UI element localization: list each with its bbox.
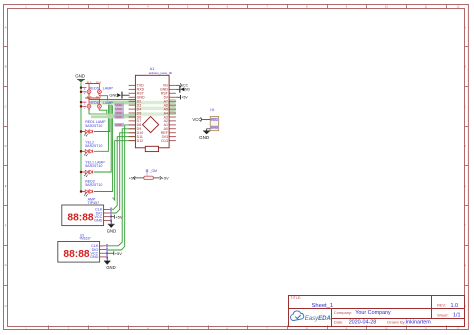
svg-text:GND: GND xyxy=(199,135,210,140)
svg-text:Inkinartem: Inkinartem xyxy=(406,320,432,326)
svg-text:GND: GND xyxy=(182,88,190,92)
svg-text:+5V: +5V xyxy=(182,96,189,100)
svg-text:GND: GND xyxy=(75,74,85,79)
svg-text:F: F xyxy=(5,224,7,228)
svg-text:Your Company: Your Company xyxy=(355,310,391,316)
svg-text:2020-04-28: 2020-04-28 xyxy=(349,320,377,326)
svg-text:5AR25T10: 5AR25T10 xyxy=(85,144,102,148)
svg-text:+5V: +5V xyxy=(115,214,123,219)
svg-text:D: D xyxy=(5,144,7,148)
svg-text:Drawn By:: Drawn By: xyxy=(387,319,405,324)
svg-text:_OM: _OM xyxy=(149,169,158,173)
svg-text:A: A xyxy=(5,26,7,30)
svg-text:GND: GND xyxy=(109,93,118,98)
svg-text:Date:: Date: xyxy=(334,319,344,324)
svg-text:M6M1: M6M1 xyxy=(115,103,123,107)
svg-text:1.0: 1.0 xyxy=(451,303,459,309)
svg-text:D13: D13 xyxy=(161,139,168,143)
svg-text:arduino_nano_3b: arduino_nano_3b xyxy=(149,71,173,75)
svg-text:H: H xyxy=(5,304,7,308)
svg-text:LAMP: LAMP xyxy=(103,101,114,105)
svg-text:VCC: VCC xyxy=(211,118,218,122)
svg-text:M8M1: M8M1 xyxy=(115,111,123,115)
svg-text:+5V: +5V xyxy=(129,176,136,180)
svg-text:Sheet:: Sheet: xyxy=(437,312,449,317)
svg-text:1/1: 1/1 xyxy=(453,313,461,319)
svg-text:GND: GND xyxy=(106,265,115,270)
svg-text:M2M1: M2M1 xyxy=(115,123,123,127)
svg-text:GND: GND xyxy=(211,126,219,130)
svg-text:M5M1: M5M1 xyxy=(115,107,123,111)
svg-text:Company:: Company: xyxy=(334,310,352,315)
svg-text:RED5: RED5 xyxy=(89,87,99,91)
svg-text:TITLE:: TITLE: xyxy=(291,296,302,300)
svg-text:M9M1: M9M1 xyxy=(115,115,123,119)
svg-text:D12: D12 xyxy=(137,139,144,143)
svg-text:LAMP: LAMP xyxy=(103,87,114,91)
svg-text:REV:: REV: xyxy=(437,303,446,308)
svg-text:H1: H1 xyxy=(210,108,214,112)
svg-text:RED6: RED6 xyxy=(89,101,99,105)
svg-text:+5V: +5V xyxy=(115,251,123,256)
svg-text:+5V: +5V xyxy=(162,176,169,180)
svg-text:EasyEDA: EasyEDA xyxy=(305,316,331,322)
svg-text:GND: GND xyxy=(107,228,116,233)
svg-text:E: E xyxy=(5,184,7,188)
svg-text:B: B xyxy=(5,65,7,69)
svg-text:TIP457: TIP457 xyxy=(88,201,100,205)
svg-text:5AR25T10: 5AR25T10 xyxy=(85,164,102,168)
svg-text:C: C xyxy=(5,104,7,108)
svg-text:5AR25T10: 5AR25T10 xyxy=(85,124,102,128)
svg-text:0: 0 xyxy=(146,169,148,173)
svg-text:5AR25T10: 5AR25T10 xyxy=(85,183,102,187)
svg-text:TM1637: TM1637 xyxy=(79,237,91,241)
svg-text:G: G xyxy=(5,263,7,267)
svg-text:VCC: VCC xyxy=(192,117,201,122)
svg-text:Sheet_1: Sheet_1 xyxy=(312,303,334,309)
